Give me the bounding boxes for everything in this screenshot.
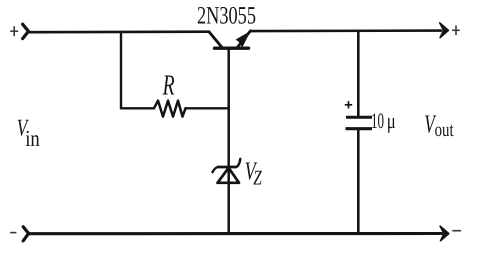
base bar <box>215 47 249 50</box>
wire top rail left segment <box>29 30 209 33</box>
zener bar left hook <box>213 167 219 172</box>
svg-text:μ: μ <box>387 108 396 133</box>
wire top rail right segment <box>250 29 441 32</box>
svg-text:out: out <box>435 119 454 141</box>
svg-text:Z: Z <box>253 165 262 189</box>
resistor R zigzag <box>154 101 186 117</box>
emitter arrow <box>237 32 250 46</box>
terminal minus bottom-right <box>452 230 461 232</box>
zener triangle <box>218 168 240 183</box>
capacitor bottom plate <box>346 127 373 130</box>
zener diode VZ <box>213 159 241 183</box>
terminal chevron top-left <box>23 24 29 38</box>
wire resistor left lead <box>121 107 154 109</box>
collector line <box>209 32 222 47</box>
terminal plus top-right <box>452 25 460 35</box>
terminal arrow bottom-right <box>440 226 449 241</box>
terminal minus bottom-left <box>10 232 16 234</box>
wire bottom rail <box>29 232 442 235</box>
capacitor plus sign <box>345 104 352 106</box>
terminal plus top-left <box>10 26 18 36</box>
capacitor top plate <box>346 116 372 119</box>
zener cathode bar <box>218 166 236 169</box>
svg-text:in: in <box>25 126 40 151</box>
wire capacitor vertical lower <box>357 130 360 234</box>
svg-text:2N3055: 2N3055 <box>197 2 256 29</box>
capacitor C1 <box>345 101 372 129</box>
terminal arrow top-right <box>440 23 449 38</box>
wire capacitor vertical upper <box>357 31 360 117</box>
emitter line <box>238 31 250 47</box>
wire resistor right lead <box>186 107 229 109</box>
transistor Q1 2N3055 <box>209 31 250 48</box>
svg-text:R: R <box>162 69 175 101</box>
wire base and zener vertical <box>227 48 230 233</box>
zener bar right hook <box>236 159 240 167</box>
terminal chevron bottom-left <box>23 227 28 241</box>
svg-text:10: 10 <box>371 108 384 133</box>
wire R branch vertical from top rail <box>120 32 122 108</box>
